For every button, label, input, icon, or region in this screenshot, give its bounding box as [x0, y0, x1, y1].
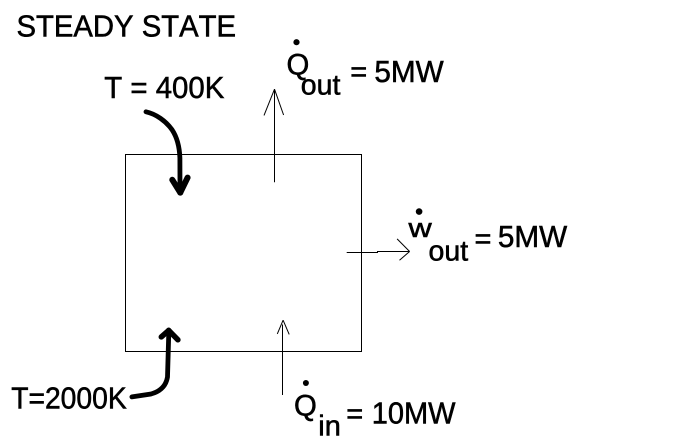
svg-text:=: = — [475, 224, 492, 256]
Q_out arrow (thin, up) — [264, 89, 284, 182]
svg-text:=: = — [346, 398, 363, 430]
Q_in arrow (thin, up into box) — [277, 320, 289, 395]
svg-text:out: out — [429, 236, 469, 268]
svg-text:STEADY STATE: STEADY STATE — [17, 9, 237, 43]
svg-text:in: in — [318, 411, 341, 439]
svg-text:=: = — [350, 56, 367, 88]
system box — [126, 155, 362, 352]
dot above W_out — [416, 208, 423, 215]
svg-text:5MW: 5MW — [498, 219, 568, 254]
svg-text:out: out — [301, 70, 341, 102]
svg-text:Q: Q — [294, 389, 317, 422]
thick curved arrow from T=2000K into box — [132, 330, 178, 397]
thick curved arrow from T=400K into box — [146, 112, 188, 193]
dot above Q_in — [303, 380, 309, 386]
W_out arrow (thin, right) — [347, 239, 410, 260]
svg-text:T=2000K: T=2000K — [11, 382, 127, 416]
dot above Q_out — [293, 39, 299, 45]
svg-text:10MW: 10MW — [372, 397, 456, 431]
svg-text:T = 400K: T = 400K — [104, 71, 224, 105]
svg-text:5MW: 5MW — [374, 54, 444, 89]
